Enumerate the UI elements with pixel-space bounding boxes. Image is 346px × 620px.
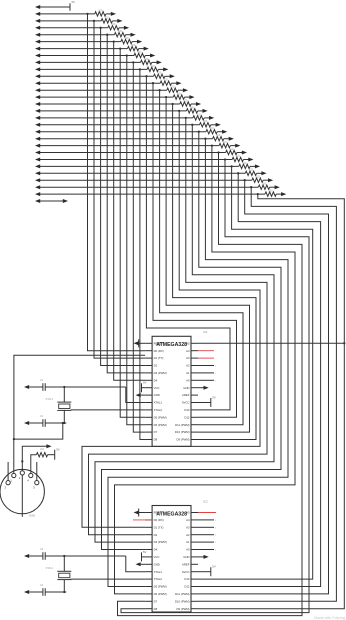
svg-text:220: 220 — [177, 93, 182, 96]
svg-text:5V: 5V — [212, 396, 216, 400]
svg-text:D13: D13 — [184, 408, 190, 412]
svg-text:XTAL1: XTAL1 — [154, 570, 163, 574]
svg-text:220: 220 — [242, 162, 247, 165]
svg-text:220: 220 — [256, 176, 261, 179]
svg-text:D5 (PWM): D5 (PWM) — [154, 585, 167, 589]
svg-text:220: 220 — [229, 148, 234, 151]
svg-text:220: 220 — [170, 86, 175, 89]
svg-text:D0 (RX): D0 (RX) — [154, 349, 164, 353]
svg-text:A4: A4 — [186, 349, 190, 353]
svg-text:A1: A1 — [186, 540, 190, 544]
svg-text:D11 (PWM): D11 (PWM) — [175, 423, 189, 427]
svg-text:220: 220 — [203, 120, 208, 123]
svg-text:GND: GND — [154, 393, 160, 397]
svg-text:5V: 5V — [56, 448, 60, 452]
svg-text:AVCC: AVCC — [182, 570, 190, 574]
svg-text:D3 (PWM): D3 (PWM) — [154, 540, 167, 544]
svg-text:220: 220 — [138, 51, 143, 54]
svg-text:220: 220 — [249, 169, 254, 172]
svg-text:220: 220 — [190, 106, 195, 109]
svg-text:D7: D7 — [154, 430, 158, 434]
svg-text:AVCC: AVCC — [182, 401, 190, 405]
svg-text:DIN1: DIN1 — [29, 514, 36, 518]
svg-text:220: 220 — [236, 155, 241, 158]
svg-text:A3: A3 — [186, 356, 190, 360]
svg-text:220: 220 — [144, 58, 149, 61]
svg-text:RESET: RESET — [154, 341, 164, 345]
svg-text:220: 220 — [164, 79, 169, 82]
svg-text:A4: A4 — [186, 518, 190, 522]
svg-text:220: 220 — [98, 9, 103, 12]
svg-text:D2: D2 — [154, 533, 158, 537]
svg-text:5V: 5V — [143, 381, 147, 385]
svg-text:D4: D4 — [154, 548, 158, 552]
svg-text:220: 220 — [151, 65, 156, 68]
svg-text:D1 (TX): D1 (TX) — [154, 525, 164, 529]
svg-text:D6 (PWM): D6 (PWM) — [154, 592, 167, 596]
svg-text:A5: A5 — [186, 341, 190, 345]
svg-text:A2: A2 — [186, 364, 190, 368]
svg-text:XTAL1: XTAL1 — [154, 401, 163, 405]
svg-text:D3 (PWM): D3 (PWM) — [154, 371, 167, 375]
svg-text:AREF: AREF — [182, 562, 190, 566]
svg-text:D4: D4 — [154, 378, 158, 382]
svg-text:220: 220 — [105, 16, 110, 19]
svg-text:D1 (TX): D1 (TX) — [154, 356, 164, 360]
svg-text:2k2: 2k2 — [40, 448, 45, 451]
svg-text:GND: GND — [154, 562, 160, 566]
svg-text:5V: 5V — [72, 0, 76, 4]
svg-text:D10 (PWM): D10 (PWM) — [175, 599, 190, 603]
svg-text:220: 220 — [269, 190, 274, 193]
svg-text:GND: GND — [183, 386, 189, 390]
svg-text:XTAL2: XTAL2 — [154, 577, 163, 581]
svg-text:A1: A1 — [186, 371, 190, 375]
svg-text:A0: A0 — [186, 548, 190, 552]
svg-text:D10 (PWM): D10 (PWM) — [175, 430, 190, 434]
svg-text:IC2: IC2 — [203, 499, 208, 503]
svg-text:220: 220 — [183, 99, 188, 102]
svg-text:220: 220 — [111, 23, 116, 26]
svg-text:XTAL1: XTAL1 — [46, 398, 54, 401]
svg-text:XTAL2: XTAL2 — [154, 408, 163, 412]
svg-text:A3: A3 — [186, 525, 190, 529]
svg-text:A5: A5 — [186, 511, 190, 515]
svg-text:D7: D7 — [154, 599, 158, 603]
svg-text:XTAL2: XTAL2 — [46, 567, 54, 570]
svg-text:220: 220 — [223, 141, 228, 144]
svg-text:D5 (PWM): D5 (PWM) — [154, 415, 167, 419]
svg-text:220: 220 — [262, 183, 267, 186]
svg-text:D12: D12 — [184, 415, 190, 419]
svg-text:AREF: AREF — [182, 393, 190, 397]
svg-text:220: 220 — [118, 30, 123, 33]
svg-text:VCC: VCC — [154, 386, 160, 390]
svg-text:220: 220 — [131, 44, 136, 47]
svg-text:220: 220 — [210, 127, 215, 130]
svg-text:A0: A0 — [186, 378, 190, 382]
svg-text:220: 220 — [197, 113, 202, 116]
svg-text:D8: D8 — [154, 607, 158, 611]
svg-text:Made with Fritzing: Made with Fritzing — [314, 616, 345, 620]
svg-text:A2: A2 — [186, 533, 190, 537]
svg-text:D9 (PWM): D9 (PWM) — [176, 607, 189, 611]
svg-text:220: 220 — [216, 134, 221, 137]
svg-text:220: 220 — [157, 72, 162, 75]
svg-text:D12: D12 — [184, 585, 190, 589]
svg-text:D8: D8 — [154, 438, 158, 442]
svg-text:D13: D13 — [184, 577, 190, 581]
svg-text:5V: 5V — [212, 565, 216, 569]
svg-text:IC1: IC1 — [203, 330, 208, 334]
svg-text:D0 (RX): D0 (RX) — [154, 518, 164, 522]
svg-text:RESET: RESET — [154, 511, 164, 515]
svg-text:5V: 5V — [143, 550, 147, 554]
svg-text:GND: GND — [183, 555, 189, 559]
svg-text:D9 (PWM): D9 (PWM) — [176, 438, 189, 442]
svg-text:VCC: VCC — [154, 555, 160, 559]
svg-text:D6 (PWM): D6 (PWM) — [154, 423, 167, 427]
svg-text:220: 220 — [125, 37, 130, 40]
svg-text:D2: D2 — [154, 364, 158, 368]
svg-text:D11 (PWM): D11 (PWM) — [175, 592, 189, 596]
